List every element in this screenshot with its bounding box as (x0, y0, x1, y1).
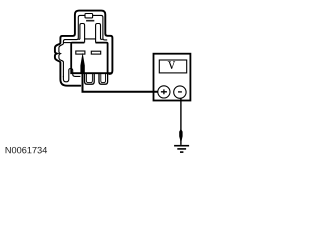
connector C1 tab lower bar (86, 20, 94, 22)
voltmeter V1 positive terminal (158, 86, 170, 98)
connector C1 inner outline (59, 15, 107, 77)
connector C1 right cavity pillar (96, 24, 101, 43)
connector C1 terminal slot 1 (76, 51, 85, 54)
probe arrow on ground lead (179, 129, 182, 144)
connector C1 foot 1 (85, 74, 95, 85)
connector C1 foot 2 (99, 74, 108, 85)
voltmeter V1 display window (159, 60, 186, 73)
voltmeter V1 negative terminal (174, 86, 186, 98)
connector C1 terminal slot 2 (91, 51, 100, 54)
wire from negative terminal to ground (180, 98, 182, 145)
voltmeter V1 body (154, 54, 191, 101)
probe arrow at slot 1 (80, 53, 84, 73)
ground symbol (174, 145, 189, 153)
connector C1 inner bottom-left foot detail (63, 69, 80, 82)
connector C1 cavity bridge (78, 38, 103, 40)
voltmeter V1 V label (168, 61, 175, 69)
connector C1 left shelf line (63, 42, 71, 44)
connector C1 outer outline (55, 11, 113, 86)
connector C1 top lock tab (85, 14, 93, 18)
wire from connector to voltmeter positive lead (83, 71, 158, 92)
connector C1 face box (71, 43, 111, 74)
connector C1 left cavity pillar (80, 24, 85, 43)
part number label N0061734 (6, 147, 47, 154)
